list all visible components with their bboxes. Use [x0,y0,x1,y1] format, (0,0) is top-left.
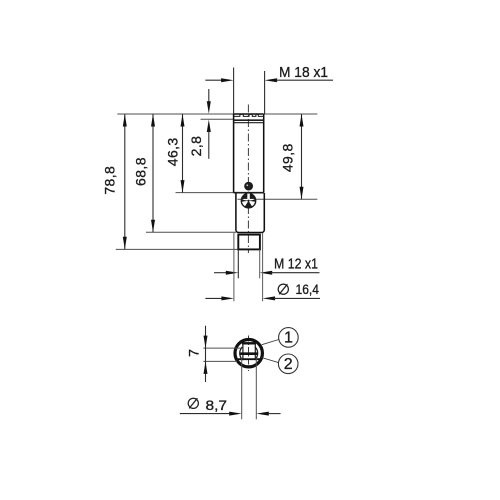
shoulder thick line [234,119,264,121]
lower body outline [236,193,264,233]
leader to pin 2 [262,358,279,363]
dim 46.3 [182,114,184,193]
svg-text:8,7: 8,7 [206,398,228,414]
M12 thread stub [238,235,260,250]
callout circle 1 [279,328,299,348]
svg-text:M 18 x1: M 18 x1 [279,64,328,81]
dim 16.4: dimension line + arrows (outside) [205,297,222,299]
svg-text:16,4: 16,4 [296,282,320,298]
wire: screw centre extension line right [238,198,318,200]
dim 8.7: extension lines [241,358,243,419]
label diameter 16,4 [278,284,288,294]
wire: top face extension line right [264,113,317,115]
keyway sides [242,343,244,361]
wire: 2.8 lower extension line [201,118,234,120]
potentiometer screw [241,194,255,208]
body M18 barrel outline [234,114,264,193]
svg-text:49,8: 49,8 [280,143,296,172]
dim 8.7: line + arrows outside [180,413,230,415]
dim 7: line + arrows outside [205,326,207,382]
wire: 68.8 extension line [146,231,236,233]
svg-text:78,8: 78,8 [101,166,117,195]
svg-text:68,8: 68,8 [133,157,149,186]
wire: 78.8 bottom extension line [116,248,239,250]
svg-text:M 12 x1: M 12 x1 [274,256,318,273]
dim M18: extension lines [233,68,235,115]
svg-text:2,8: 2,8 [188,136,204,157]
callout circle 2 [278,354,298,374]
dim 78.8 [124,114,126,249]
dim 16.4: extension lines [233,233,235,301]
svg-text:1: 1 [284,330,293,347]
label diameter 8,7 [188,398,198,408]
connector outer circle [235,340,262,367]
dim 49.8 [301,114,303,199]
connector centre line [248,336,250,372]
contact bar 1 [242,342,256,344]
svg-text:7: 7 [185,349,201,357]
node: sensor centre line (vertical dash-dot) [247,105,249,254]
dim 7: extension lines [203,347,240,349]
connector inner circle [240,347,243,360]
chamfer line [234,122,264,124]
thread relief castellation [234,114,263,116]
svg-text:2: 2 [284,356,293,373]
dim 68.8 [152,114,154,232]
dim 2.8 (arrows outside) [208,89,210,102]
dim M12: dimension line + arrows (outside) [214,272,227,274]
LED indicator [244,182,253,191]
dim M12: extension lines [237,249,239,278]
seam thick line [234,192,264,194]
contact bar 2 [240,352,257,355]
wire: 46.3 extension line (seam) [176,192,236,194]
svg-text:46,3: 46,3 [165,137,181,166]
wire: top face extension line left [117,113,233,115]
contact bar 3 [237,358,260,360]
dim M18: dimension line + arrows [205,79,222,81]
leader to pin 1 [262,340,279,345]
